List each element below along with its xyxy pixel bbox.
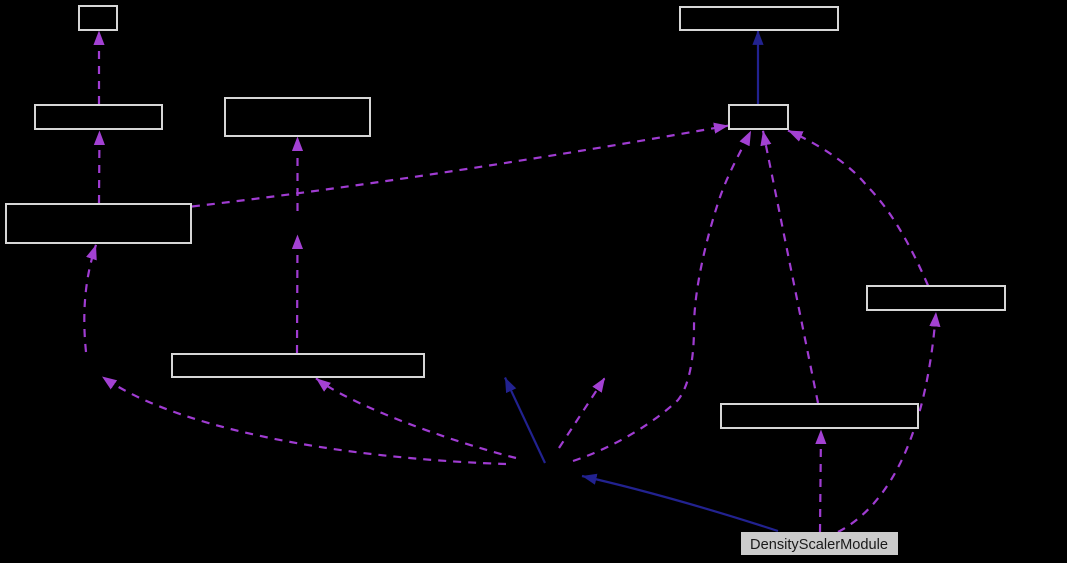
svg-text:DensityScalerModule: DensityScalerModule [750, 537, 888, 553]
